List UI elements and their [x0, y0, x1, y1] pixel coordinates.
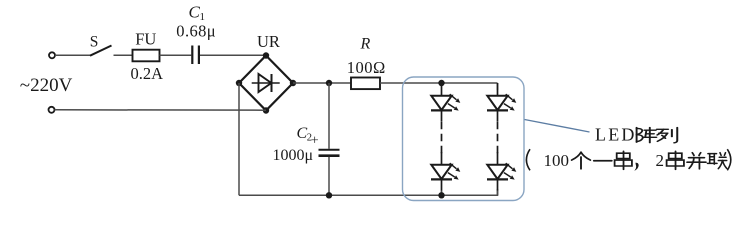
svg-text:0.2A: 0.2A: [131, 64, 164, 83]
svg-text:UR: UR: [257, 32, 280, 51]
switch S (blade): [90, 46, 112, 56]
callout line to LED array label: [525, 120, 590, 133]
LED D1: [431, 83, 460, 122]
node: bridge left vertex: [236, 80, 242, 86]
svg-text:~220V: ~220V: [20, 75, 73, 96]
LED D4: [487, 152, 516, 191]
label (100个一串，2串并联) close paren: [727, 149, 731, 170]
label glyph 列: [657, 128, 677, 143]
wire: bridge right vertex to resistor R: [293, 82, 351, 84]
wire: resistor to LED array top: [380, 82, 498, 84]
wire: dashed continuation string 2: [497, 122, 499, 156]
svg-text:100Ω: 100Ω: [347, 58, 386, 77]
label glyph 个: [572, 152, 591, 169]
node: C2 top junction: [326, 80, 332, 86]
svg-text:FU: FU: [135, 30, 156, 49]
label fullwidth comma: [634, 163, 638, 171]
svg-text:100: 100: [544, 151, 570, 170]
svg-text:R: R: [360, 36, 371, 53]
capacitor C1: [192, 46, 199, 65]
svg-text:0.68μ: 0.68μ: [176, 21, 216, 40]
label C2: [297, 125, 313, 144]
svg-text:2: 2: [656, 151, 665, 170]
node: C2 bottom junction: [326, 192, 332, 198]
capacitor C2 (electrolytic): [319, 150, 340, 156]
node: LED string 1 top junction: [438, 80, 444, 86]
node: bridge right vertex: [290, 80, 296, 86]
label glyph 串 (second): [667, 151, 684, 169]
wire: C2 bottom lead: [328, 157, 330, 196]
node: LED string 1 bottom junction: [438, 192, 444, 198]
terminal: bottom AC input: [49, 107, 55, 113]
resistor R: [351, 78, 380, 90]
node: bridge top vertex: [263, 52, 269, 58]
node: bridge bottom vertex: [263, 107, 269, 113]
wire: bottom rail: [239, 189, 498, 195]
label (100个一串，2串并联) open paren: [526, 149, 530, 170]
wire: LED string 2 top drop: [497, 83, 499, 90]
wire: C1 to bridge top vertex: [200, 54, 266, 56]
bridge rectifier UR (diamond): [239, 56, 293, 111]
label glyph 并: [687, 153, 706, 169]
wire: bottom terminal to bridge bottom vertex (crosses DC- wire, no junction): [55, 109, 267, 111]
wire: dashed continuation string 1: [441, 122, 443, 156]
svg-text:S: S: [90, 33, 99, 50]
label glyph 串: [615, 151, 632, 169]
label glyph 联: [708, 153, 727, 169]
fuse FU: [133, 50, 160, 62]
label glyph 阵: [637, 128, 657, 143]
diode inside bridge: [252, 74, 280, 92]
LED D3: [487, 83, 516, 122]
label C1: [189, 3, 206, 23]
wire: top terminal to switch pivot: [55, 54, 91, 56]
wire: D4 cathode to bottom rail corner: [497, 191, 499, 196]
LED D2: [431, 152, 460, 191]
wire: D2 cathode to bottom rail: [441, 191, 443, 196]
terminal: top AC input: [49, 52, 55, 58]
wire: C2 branch vertical: [328, 83, 330, 149]
wire: bridge left vertex down to bottom rail (DC-): [238, 83, 240, 195]
label glyph 一: [594, 160, 612, 162]
svg-text:1000μ: 1000μ: [273, 147, 314, 164]
LED array enclosure (blue rounded box): [403, 77, 525, 201]
svg-text:LED: LED: [595, 124, 637, 144]
wire: switch to fuse: [114, 54, 133, 56]
wire: fuse to C1: [160, 54, 192, 56]
